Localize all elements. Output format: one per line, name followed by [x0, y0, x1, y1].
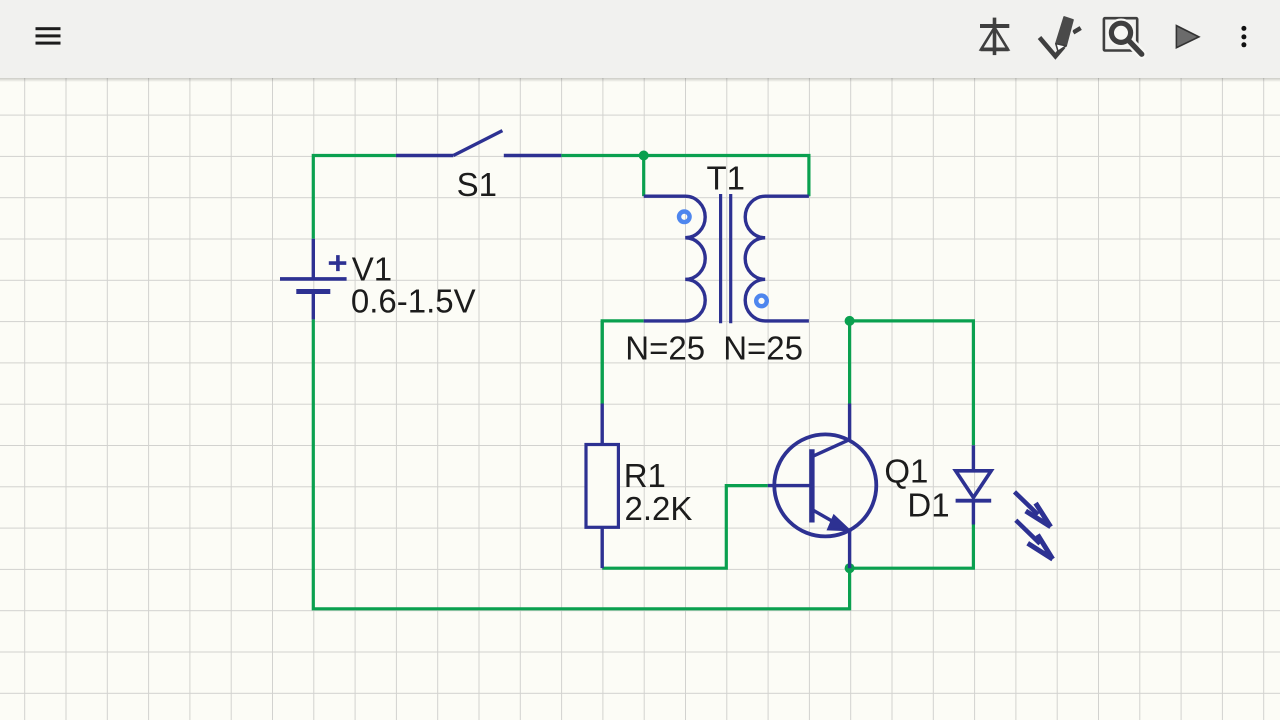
svg-text:2.2K: 2.2K	[625, 490, 693, 527]
svg-text:0.6-1.5V: 0.6-1.5V	[351, 282, 476, 319]
svg-text:R1: R1	[624, 457, 666, 494]
svg-text:Q1: Q1	[884, 452, 928, 489]
svg-text:S1: S1	[457, 166, 497, 203]
svg-text:T1: T1	[707, 159, 746, 196]
svg-text:N=25: N=25	[625, 330, 705, 367]
svg-text:D1: D1	[907, 487, 949, 524]
svg-text:N=25: N=25	[723, 330, 803, 367]
